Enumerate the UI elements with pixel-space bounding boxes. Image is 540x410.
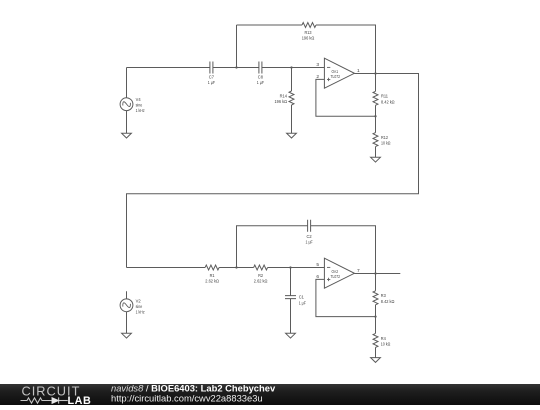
label V2 sine 1 kHz: [136, 298, 145, 315]
svg-text:196 kΩ: 196 kΩ: [302, 36, 315, 42]
wire: R11 to R12: [375, 105, 377, 132]
op-amp OA2 TL072: [324, 258, 354, 288]
wire: V4 to ground: [126, 111, 128, 134]
ground (below R12): [371, 157, 381, 162]
wire: V2 to ground: [126, 312, 128, 334]
svg-text:3: 3: [316, 62, 319, 68]
voltage source V4 (sine): [120, 98, 133, 111]
wire: R2 to op-amp inverting input: [268, 267, 325, 269]
wire: node D down to C1: [290, 268, 292, 296]
pin 7 label: [357, 268, 360, 274]
node C: R1/R2/C2 junction: [235, 266, 237, 268]
wire: C7 to C8: [213, 67, 259, 69]
svg-text:1 µF: 1 µF: [299, 300, 306, 306]
op-amp OA1 TL072: [324, 58, 354, 88]
pin 2 label: [316, 74, 319, 80]
label OA1 TL072: [331, 69, 341, 79]
svg-text:1 kHz: 1 kHz: [136, 108, 145, 114]
svg-text:R4: R4: [381, 336, 386, 342]
logo wire with resistor and diode: [21, 397, 68, 403]
wire: stage1 output loop to stage2 input: [127, 74, 419, 268]
wire: non-inverting input feedback (pin2 to R11/R12 node): [316, 79, 376, 116]
svg-text:1: 1: [357, 68, 360, 74]
label R2 value 2.62 kOhm: [254, 273, 268, 285]
ground (below R14): [287, 133, 297, 138]
wire: node B down to R14: [291, 68, 293, 92]
svg-text:LAB: LAB: [68, 395, 92, 405]
pin 6 label: [316, 274, 319, 280]
svg-text:1 µF: 1 µF: [257, 80, 264, 86]
wire: R12 to ground: [375, 147, 377, 158]
label V4 sine 1 kHz: [136, 97, 145, 114]
wire: R13 right lead and feedback drop to output node: [316, 25, 376, 74]
wire: output node down to R3: [375, 274, 377, 291]
label C1 value 1 uF: [299, 295, 306, 307]
label R11 value 8.42 kOhm: [381, 94, 395, 106]
ground (below V2): [122, 333, 132, 338]
wire: C8 to op-amp inverting input: [262, 67, 325, 69]
svg-text:7: 7: [357, 268, 360, 274]
svg-text:TL072: TL072: [331, 274, 341, 279]
wire: R14 to ground: [291, 105, 293, 133]
svg-text:R1: R1: [210, 273, 215, 279]
wire: R4 to ground: [375, 347, 377, 357]
wire: stage2 input to R1: [127, 267, 206, 269]
svg-text:R12: R12: [381, 135, 388, 141]
resistor R12: [373, 133, 378, 147]
pin 5 label: [316, 262, 319, 268]
voltage source V4 lead from top wire: [126, 68, 128, 98]
svg-text:V2: V2: [136, 298, 141, 304]
svg-text:V4: V4: [136, 97, 141, 103]
svg-text:sine: sine: [136, 304, 143, 310]
label R1 value 2.62 kOhm: [205, 273, 219, 285]
label C8 value 1 uF: [257, 75, 264, 87]
svg-text:10 kΩ: 10 kΩ: [381, 341, 391, 347]
label C7 value 1 uF: [208, 75, 215, 87]
wire: R1 to R2: [219, 267, 254, 269]
voltage source V2 open lead: [126, 291, 128, 299]
label OA2 TL072: [331, 269, 341, 279]
node: stage2 output junction: [374, 272, 376, 274]
node A: C7/C8/R13 junction: [235, 66, 237, 68]
resistor R13: [302, 23, 316, 28]
wire: node C up and right to C2: [237, 226, 308, 268]
node: stage1 output junction: [374, 72, 376, 74]
svg-text:2.62 kΩ: 2.62 kΩ: [254, 279, 268, 285]
svg-text:196 kΩ: 196 kΩ: [275, 99, 288, 105]
ground (below R4): [371, 358, 381, 363]
svg-text:8.42 kΩ: 8.42 kΩ: [381, 299, 395, 305]
svg-text:C7: C7: [209, 75, 214, 81]
capacitor C2: [308, 220, 311, 232]
pin 3 label: [316, 62, 319, 68]
svg-text:C1: C1: [299, 295, 304, 301]
svg-text:C8: C8: [258, 75, 263, 81]
label R3 value 8.42 kOhm: [381, 293, 395, 305]
svg-text:TL072: TL072: [331, 74, 341, 79]
node D: R2/C1 junction: [289, 266, 291, 268]
resistor R4: [373, 333, 378, 347]
capacitor C1: [285, 296, 296, 299]
label R13 value 196 kOhm: [302, 30, 315, 42]
wire: feedback riser node A up to R13: [236, 25, 238, 68]
node: R3/R4 divider junction: [374, 315, 376, 317]
svg-text:5: 5: [316, 262, 319, 268]
svg-text:http://circuitlab.com/cwv22a88: http://circuitlab.com/cwv22a8833e3u: [111, 392, 263, 403]
capacitor C7: [210, 62, 213, 74]
svg-text:R11: R11: [381, 94, 388, 100]
svg-text:R2: R2: [258, 273, 263, 279]
node B: C8/R14 junction: [290, 66, 292, 68]
ground (below C1): [286, 333, 296, 338]
svg-text:C2: C2: [307, 234, 312, 240]
wire: R3 to R4: [375, 305, 377, 334]
label C2 value 1 uF: [306, 234, 313, 246]
wire: R13 left lead: [237, 24, 303, 26]
resistor R1: [205, 265, 219, 270]
pin 1 label: [357, 68, 360, 74]
resistor R3: [373, 291, 378, 305]
resistor R14: [289, 91, 294, 105]
svg-text:1 kHz: 1 kHz: [136, 310, 145, 316]
svg-text:sine: sine: [136, 103, 143, 109]
capacitor C8: [259, 62, 262, 74]
wire: C1 to ground: [290, 299, 292, 334]
voltage source V2 (sine): [120, 299, 133, 312]
wire: op-amp output to node: [354, 73, 375, 75]
svg-text:R14: R14: [280, 94, 288, 100]
node: R11/R12 divider junction: [374, 115, 376, 117]
svg-text:2.62 kΩ: 2.62 kΩ: [205, 279, 219, 285]
wire: output node down to R11: [375, 74, 377, 92]
wire: non-inverting input feedback (pin6 to R3/R4 node): [316, 279, 376, 316]
svg-text:8.42 kΩ: 8.42 kΩ: [381, 99, 395, 105]
ground (below V4): [122, 133, 132, 138]
svg-text:R3: R3: [381, 293, 386, 299]
resistor R11: [373, 91, 378, 105]
svg-text:1 µF: 1 µF: [208, 80, 215, 86]
label R14 value 196 kOhm: [275, 94, 288, 106]
wire: C2 right to stage2 output node: [311, 226, 376, 274]
svg-text:1 µF: 1 µF: [306, 239, 313, 245]
wire: V4 output to capacitor C7: [127, 67, 210, 69]
svg-text:10 kΩ: 10 kΩ: [381, 141, 391, 147]
label R4 value 10 kOhm: [381, 336, 391, 348]
label R12 value 10 kOhm: [381, 135, 391, 147]
resistor R2: [254, 265, 268, 270]
wire: op-amp output right (open end): [354, 273, 400, 275]
svg-text:R13: R13: [305, 30, 312, 36]
